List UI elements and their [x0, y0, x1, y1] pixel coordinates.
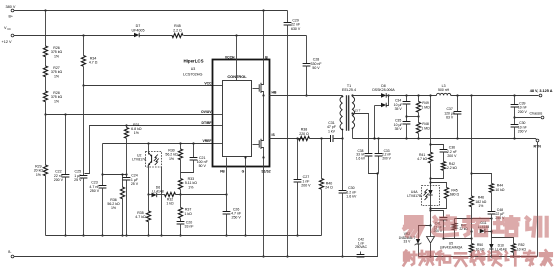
svg-text:1%: 1%: [54, 99, 60, 103]
svg-text:1%: 1%: [134, 131, 140, 135]
wire FB pin column with C26: [226, 167, 228, 212]
svg-text:1%: 1%: [169, 157, 175, 161]
resistor R48 1M: [416, 123, 420, 134]
wire IS line from U3: [270, 138, 304, 140]
wire VCC decoupling column: [83, 86, 85, 176]
capacitor C23 4.7nF 250V: [99, 186, 107, 189]
svg-text:1%: 1%: [54, 54, 60, 58]
node transformer tap 13T: [351, 112, 353, 114]
wire R33 to D6 line: [180, 190, 182, 195]
wire tap to C38 column: [353, 114, 369, 154]
svg-text:13 T: 13 T: [355, 109, 361, 113]
resistor R36 56.2k 1%: [122, 175, 124, 188]
svg-text:EEL25.4: EEL25.4: [342, 88, 356, 92]
wire VCCH net R45 to corner: [184, 35, 307, 37]
svg-text:VCC: VCC: [204, 81, 212, 85]
capacitor C20 33nF: [180, 219, 182, 222]
wire R41 column from output rail: [430, 96, 432, 153]
svg-text:200 V: 200 V: [447, 154, 457, 158]
wire secondary top pin to output line: [352, 96, 354, 97]
wire VCCH pin column: [236, 36, 238, 81]
svg-text:200 V: 200 V: [518, 130, 528, 134]
svg-text:1 kΩ: 1 kΩ: [184, 212, 192, 216]
wire R34 to VCC pin node: [83, 67, 85, 86]
svg-text:LCS702HG: LCS702HG: [183, 73, 202, 77]
svg-text:1%: 1%: [478, 204, 483, 208]
wire B pin column from 380V bus: [263, 11, 265, 61]
wire secondary bottom to RTN rail: [352, 129, 354, 139]
capacitor C37 120uF 63V: [457, 96, 459, 112]
wire R46 column from output rail: [471, 96, 473, 197]
node 48V output terminal: [539, 94, 542, 97]
svg-text:B-: B-: [8, 250, 11, 254]
svg-text:UF4005: UF4005: [132, 28, 145, 32]
svg-text:24 Ω: 24 Ω: [325, 186, 333, 190]
transistor Q lower half-bridge MOSFET inside U3: [262, 96, 264, 141]
capacitor C21 100nF 50V: [193, 144, 195, 158]
transformer secondary winding: [352, 96, 354, 128]
svg-text:U3: U3: [191, 67, 196, 71]
optocoupler U2 LTV817A: [146, 152, 162, 168]
svg-text:680 Ω: 680 Ω: [450, 193, 460, 197]
svg-text:50 V: 50 V: [312, 66, 320, 70]
wire secondary lower rail: [419, 256, 538, 258]
resistor R38 220 ohm: [299, 136, 310, 140]
wire cross link 174 row: [103, 174, 127, 176]
svg-text:+12 V: +12 V: [2, 40, 12, 44]
svg-text:1 MΩ: 1 MΩ: [421, 105, 430, 109]
svg-text:1.6 kV: 1.6 kV: [346, 195, 357, 199]
resistor R45 2.2 ohm: [172, 33, 183, 37]
wire R27-R28: [45, 77, 47, 92]
svg-text:25 V: 25 V: [74, 178, 82, 182]
svg-text:CONTROL: CONTROL: [227, 74, 247, 79]
wire B- power rail: [14, 174, 378, 257]
shunt regulator U5 LMV431AIMQA: [430, 226, 432, 237]
wire D8 lower cathode riser: [387, 96, 389, 106]
svg-text:200 V: 200 V: [382, 156, 391, 160]
capacitor C31 47pF 1kV: [331, 135, 334, 142]
svg-text:500 nH: 500 nH: [438, 88, 450, 92]
svg-text:1%: 1%: [111, 206, 117, 210]
svg-text:33 nF: 33 nF: [184, 225, 194, 229]
wire HB output line to transformer: [270, 95, 343, 97]
resistor R47 22k: [454, 219, 456, 224]
wire C31 to primary bottom: [333, 130, 343, 139]
svg-text:35 V: 35 V: [395, 127, 403, 131]
wire R38 to C31: [310, 138, 331, 140]
capacitor C26 4.7nF 250V: [223, 212, 231, 215]
wire RTN rail: [353, 139, 537, 140]
svg-text:4.7 Ω: 4.7 Ω: [89, 61, 98, 65]
svg-text:LTV817B: LTV817B: [407, 194, 422, 198]
wire C21 to 173 node: [181, 160, 194, 173]
svg-text:63 V: 63 V: [446, 116, 454, 120]
svg-text:1.6 kV: 1.6 kV: [356, 156, 366, 160]
resistor R42 2.2k: [443, 152, 445, 162]
wire control block to FB pin: [226, 158, 228, 167]
wire OV/UV node down to R29: [45, 115, 47, 166]
node B- terminal: [11, 255, 14, 258]
transformer core: [347, 95, 349, 131]
svg-text:220 Ω: 220 Ω: [299, 132, 309, 136]
svg-text:380 V: 380 V: [6, 5, 16, 9]
wire R28 to OV/UV node: [45, 102, 47, 115]
wire LED cathode to VR2 node: [430, 209, 432, 226]
wire VCC line to D7: [14, 35, 135, 37]
resistor R50 10k: [471, 232, 473, 244]
svg-text:250 V: 250 V: [231, 216, 241, 220]
wire U2 right pin to ground rail: [161, 167, 163, 236]
svg-text:50 V: 50 V: [199, 164, 207, 168]
capacitor C33 2.2nF 200V: [378, 139, 380, 154]
wire R40 to ground rail end: [321, 190, 323, 236]
capacitor C38 33nF 1.6kV: [365, 154, 373, 157]
svg-text:10 kΩ: 10 kΩ: [495, 188, 504, 192]
resistor R34 4.7 ohm VCC feed: [83, 36, 85, 56]
control block inside U3: [223, 81, 252, 157]
capacitor C34 10uF 35V: [406, 96, 408, 102]
wire VCCH bootstrap drop to C28: [306, 36, 308, 64]
svg-text:DT/BF: DT/BF: [202, 121, 212, 125]
wire C28 to HB node: [306, 66, 308, 96]
svg-text:2.2 kΩ: 2.2 kΩ: [447, 166, 457, 170]
svg-text:250VAC: 250VAC: [355, 245, 368, 249]
wire control block to G pin: [245, 158, 247, 167]
svg-text:B+: B+: [9, 14, 14, 18]
wire VREF pin stub inside U3: [214, 143, 223, 145]
svg-text:25 V: 25 V: [131, 182, 139, 186]
svg-text:200 V: 200 V: [301, 184, 311, 188]
svg-text:10 kΩ: 10 kΩ: [517, 247, 526, 251]
node B+ 380V input terminal: [11, 9, 14, 12]
resistor R31 6.8k 1% on DT/BF: [126, 126, 128, 128]
wire OV/UV pin stub inside U3: [214, 114, 223, 116]
svg-text:250 V: 250 V: [90, 189, 100, 193]
svg-text:1 kΩ: 1 kΩ: [166, 201, 174, 205]
diode D6 LL4148: [149, 194, 152, 196]
wire R26-R27: [45, 57, 47, 67]
resistor R45 680 ohm parallel LED: [431, 183, 447, 188]
svg-text:1%: 1%: [36, 173, 42, 177]
wire source node to S1/S2 pins: [263, 158, 265, 167]
capacitor C35 10uF 35V: [403, 122, 411, 125]
node RTN terminal: [536, 139, 539, 142]
svg-text:LTV817A: LTV817A: [132, 158, 147, 162]
watermark line 1 Chinese characters: [405, 217, 423, 236]
resistor R49 1M: [418, 96, 420, 102]
capacitor C48 22uF 250V: [491, 193, 493, 212]
svg-text:LMV431AIMQA: LMV431AIMQA: [440, 246, 463, 250]
svg-text:200 V: 200 V: [518, 110, 528, 114]
inductor L3 500nH: [437, 93, 451, 95]
wire ref link row to R46 column: [444, 238, 472, 240]
svg-text:1 kV: 1 kV: [328, 129, 336, 133]
svg-text:4.7 kΩ: 4.7 kΩ: [417, 157, 427, 161]
wire U2 emitter down to D6 node: [148, 165, 150, 195]
transistor Q upper half-bridge MOSFET inside U3: [262, 61, 264, 85]
svg-text:630 V: 630 V: [291, 27, 301, 31]
diode D8 lower element: [375, 105, 382, 107]
wire C34/C35 midpoint link: [407, 116, 419, 118]
capacitor C30 6.2nF 1.6kV sense: [342, 139, 344, 191]
node VCC 12V input terminal: [11, 34, 14, 37]
wire primary signal ground rail: [46, 235, 322, 237]
wire primary top pin: [342, 96, 344, 97]
resistor R46 182k 1%: [469, 196, 473, 207]
capacitor C25 1uF 25V: [80, 176, 88, 179]
resistor R30 56.2k 1%: [180, 144, 182, 150]
resistor R41 4.7k: [428, 152, 432, 163]
capacitor C28 330nF 50V bootstrap: [303, 64, 311, 67]
resistor R26 375k 1%: [43, 46, 47, 57]
svg-text:1%: 1%: [54, 74, 60, 78]
capacitor C29 22nF 630V bus: [287, 11, 289, 23]
resistor R52 10k: [492, 232, 514, 244]
wire D7 to R45: [140, 35, 173, 37]
wire R29 to signal ground rail: [45, 176, 47, 236]
wire VCC pin line to U3: [84, 85, 214, 87]
svg-text:4.7 kΩ: 4.7 kΩ: [135, 215, 146, 219]
wire VCC pin stub inside U3: [214, 85, 223, 87]
resistor R37 1k: [180, 195, 182, 208]
resistor R29 20k 1%: [43, 165, 47, 176]
wire B+ bus (380 V rail): [14, 10, 288, 12]
svg-text:VREF: VREF: [202, 139, 211, 143]
svg-text:HB: HB: [272, 90, 277, 94]
svg-text:1%: 1%: [188, 185, 194, 189]
wire 48V output rail: [387, 95, 437, 97]
wire OV/UV pin line: [46, 114, 214, 116]
svg-text:2.2 Ω: 2.2 Ω: [173, 28, 182, 32]
wire G pin column to ground rail: [245, 167, 247, 236]
capacitor C22 22nF 200V on OV/UV: [65, 115, 67, 175]
capacitor C39 10nF 200V to chassis: [514, 96, 516, 105]
wire D8 lower anode to RTN rail: [374, 106, 376, 139]
resistor R33 5.11k 1%: [180, 173, 182, 179]
svg-text:48 V, 3.125 A: 48 V, 3.125 A: [530, 89, 553, 93]
svg-text:1 MΩ: 1 MΩ: [421, 126, 430, 130]
svg-text:Chassis: Chassis: [530, 112, 543, 116]
resistor R32 1k: [165, 192, 176, 196]
svg-text:OV/UV: OV/UV: [201, 110, 212, 114]
wire output rail after L3 to terminal: [451, 95, 539, 97]
resistor R28 375k 1%: [43, 91, 47, 102]
svg-text:33 V: 33 V: [404, 240, 412, 244]
capacitor C30 10nF 200V to RTN: [511, 125, 519, 128]
svg-text:LL4148: LL4148: [152, 190, 164, 194]
wire DT/BF pin stub inside U3: [214, 125, 223, 127]
diode D8 OS3K06-615A upper: [353, 95, 382, 97]
capacitor C36 2.2nF 200V: [431, 145, 444, 150]
diode D11 LL4148: [480, 229, 485, 234]
resistor R27 375k 1%: [43, 66, 47, 77]
capacitor C27 1nF 200V: [297, 139, 299, 180]
diode D10 LL4148: [491, 232, 493, 245]
wire R32 to FB column: [176, 194, 227, 196]
svg-text:35 V: 35 V: [395, 107, 403, 111]
resistor R44 10k: [489, 184, 493, 193]
wire R31 to C24: [126, 139, 128, 178]
wire divider column top: [45, 11, 47, 47]
svg-text:VCCH: VCCH: [225, 55, 235, 59]
wire S1/S2 column to B- rail: [263, 167, 265, 257]
diode D7 UF4005: [134, 33, 139, 38]
wire R47 top link to C48 column: [455, 218, 492, 220]
diode U4A LED: [428, 190, 432, 195]
svg-text:S1/S2: S1/S2: [261, 169, 270, 173]
wire R30 to 173 node: [180, 160, 182, 173]
wire D6 to R32: [157, 194, 165, 196]
wire DT/BF pin line with jog to C25: [85, 126, 214, 174]
svg-text:HiperLCS: HiperLCS: [184, 59, 204, 64]
capacitor C41 12nF 200V: [431, 211, 444, 218]
wire R44 branch link: [472, 174, 492, 184]
capacitor C24 1uF 25V: [123, 178, 131, 181]
capacitor C42 1nF 250VAC Y-cap: [360, 252, 362, 255]
wire VREF pin line: [103, 143, 214, 145]
node Chassis terminal: [515, 117, 541, 119]
svg-text:FB: FB: [220, 169, 225, 173]
optocoupler U4A LTV817B LED side: [422, 186, 440, 206]
svg-text:CC: CC: [7, 27, 11, 31]
svg-text:DSSK28-006A: DSSK28-006A: [372, 88, 395, 92]
svg-text:200 V: 200 V: [54, 178, 64, 182]
wire RTN drop to lower rail: [537, 142, 539, 257]
watermark line 2 Chinese characters: [404, 251, 417, 266]
wire VREF to U2 phototransistor: [148, 144, 150, 155]
resistor R40 24 ohm: [321, 139, 323, 179]
op-amp U3 LCS702HG HiperLCS IC body: [213, 60, 270, 167]
wire VREF corner column down: [102, 144, 104, 186]
resistor R35 4.7k: [148, 195, 150, 212]
zener VR2 1N5256B-T 33V: [419, 226, 431, 240]
svg-text:G: G: [242, 169, 245, 173]
